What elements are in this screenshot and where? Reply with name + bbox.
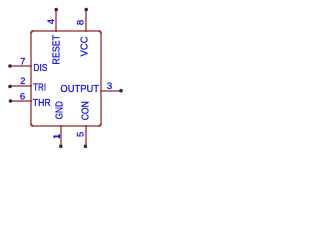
svg-text:6: 6 xyxy=(20,92,25,103)
555 timer IC schematic symbol U1 xyxy=(0,0,132,157)
pin number 1 (rotated) xyxy=(53,134,60,138)
pin 8 wire (VCC, top) xyxy=(85,10,87,30)
svg-text:VCC: VCC xyxy=(78,36,90,56)
svg-text:7: 7 xyxy=(20,57,25,68)
pin 5 wire (CON, bottom) xyxy=(85,127,87,146)
pin 8 end dot xyxy=(84,8,88,12)
pin 5 end dot xyxy=(84,145,88,149)
body corner accents xyxy=(31,31,34,34)
pin 7 wire (DIS, left) xyxy=(10,65,30,67)
pin 2 end dot xyxy=(8,85,12,89)
svg-text:TRI: TRI xyxy=(33,81,46,93)
pin 3 wire (OUTPUT, right) xyxy=(102,90,120,92)
pin 2 wire (TRI, left) xyxy=(10,85,30,87)
pin 3 end dot xyxy=(119,89,123,93)
svg-text:CON: CON xyxy=(80,101,92,120)
svg-text:2: 2 xyxy=(20,76,25,87)
svg-text:GND: GND xyxy=(54,101,66,120)
pin 6 end dot xyxy=(9,99,13,103)
svg-text:OUTPUT: OUTPUT xyxy=(60,83,99,95)
pin 7 end dot xyxy=(8,64,12,68)
pin 1 end dot xyxy=(59,145,63,149)
svg-text:5: 5 xyxy=(76,132,87,137)
IC body outline xyxy=(31,31,101,126)
pin 6 wire (THR, left) xyxy=(10,100,30,102)
svg-text:8: 8 xyxy=(75,20,86,25)
svg-text:DIS: DIS xyxy=(33,62,47,74)
pin 4 end dot xyxy=(54,8,58,12)
svg-text:3: 3 xyxy=(107,81,112,92)
pin 4 wire (RESET, top) xyxy=(55,10,57,30)
svg-text:4: 4 xyxy=(46,19,57,24)
svg-text:RESET: RESET xyxy=(50,34,62,64)
pin 1 wire (GND, bottom) xyxy=(60,127,62,146)
pin-body junction accents xyxy=(30,65,32,67)
svg-text:THR: THR xyxy=(33,97,51,109)
